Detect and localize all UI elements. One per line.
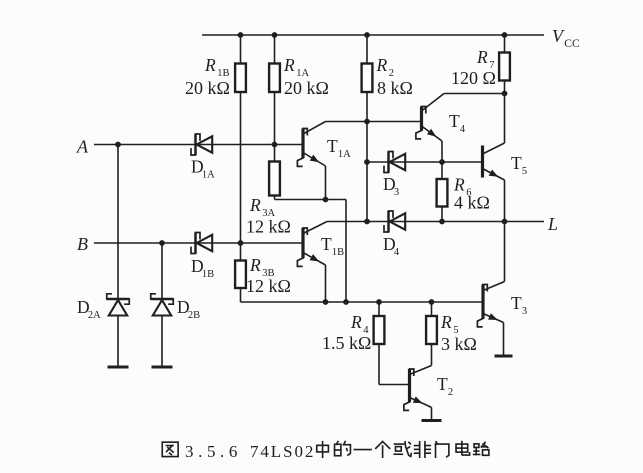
- svg-text:R: R: [376, 55, 388, 75]
- svg-text:CC: CC: [564, 38, 580, 50]
- svg-text:R: R: [249, 195, 261, 215]
- svg-text:4: 4: [460, 124, 466, 135]
- svg-text:R: R: [249, 255, 261, 275]
- svg-text:3: 3: [394, 187, 399, 198]
- svg-text:R: R: [440, 312, 452, 332]
- svg-text:T: T: [511, 293, 522, 313]
- svg-text:1B: 1B: [332, 247, 344, 258]
- svg-text:2A: 2A: [88, 310, 101, 321]
- svg-text:R: R: [476, 47, 488, 67]
- svg-text:8 kΩ: 8 kΩ: [377, 78, 413, 98]
- svg-text:12 kΩ: 12 kΩ: [246, 217, 291, 237]
- svg-text:5: 5: [522, 166, 527, 177]
- svg-text:74LS02: 74LS02: [250, 442, 315, 461]
- svg-text:1A: 1A: [338, 149, 351, 160]
- svg-text:V: V: [552, 26, 565, 46]
- svg-text:20 kΩ: 20 kΩ: [284, 78, 329, 98]
- svg-text:R: R: [204, 55, 216, 75]
- svg-text:1.5 kΩ: 1.5 kΩ: [322, 333, 371, 353]
- svg-text:3: 3: [522, 306, 527, 317]
- svg-text:T: T: [321, 234, 332, 254]
- svg-text:R: R: [283, 55, 295, 75]
- svg-text:3.5.6: 3.5.6: [185, 442, 242, 461]
- svg-text:3 kΩ: 3 kΩ: [441, 334, 477, 354]
- svg-text:B: B: [77, 234, 88, 254]
- svg-text:4: 4: [394, 247, 400, 258]
- svg-text:20 kΩ: 20 kΩ: [185, 78, 230, 98]
- svg-text:L: L: [547, 214, 558, 234]
- svg-text:T: T: [437, 374, 448, 394]
- svg-text:T: T: [511, 153, 522, 173]
- svg-text:4 kΩ: 4 kΩ: [454, 193, 490, 213]
- svg-text:12 kΩ: 12 kΩ: [246, 276, 291, 296]
- svg-text:A: A: [76, 137, 89, 157]
- svg-text:120 Ω: 120 Ω: [451, 68, 496, 88]
- svg-text:2: 2: [448, 387, 453, 398]
- svg-text:2B: 2B: [188, 310, 200, 321]
- svg-text:R: R: [350, 312, 362, 332]
- svg-text:T: T: [449, 111, 460, 131]
- svg-text:T: T: [327, 136, 338, 156]
- svg-text:R: R: [453, 175, 465, 195]
- svg-text:1B: 1B: [202, 269, 214, 280]
- svg-text:1A: 1A: [202, 170, 215, 181]
